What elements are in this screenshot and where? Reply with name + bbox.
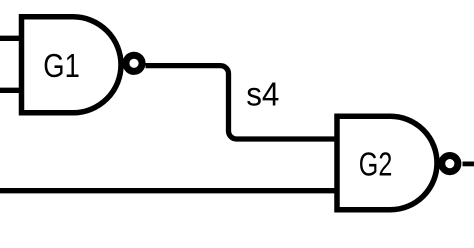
wire G2 input B (long bottom wire) xyxy=(0,188,337,193)
wire net s4 from G1 output to G2 input xyxy=(146,66,338,139)
wire G2 output xyxy=(463,161,474,166)
svg-text:G2: G2 xyxy=(359,145,393,182)
wire G1 input A xyxy=(0,36,22,41)
svg-text:G1: G1 xyxy=(43,47,80,84)
inverter bubble G1 xyxy=(126,55,142,71)
nand gate G1 xyxy=(22,17,122,113)
wire G1 input B xyxy=(0,88,22,93)
svg-text:s4: s4 xyxy=(246,76,279,113)
nand gate G2 xyxy=(337,116,437,209)
inverter bubble G2 xyxy=(442,156,458,172)
